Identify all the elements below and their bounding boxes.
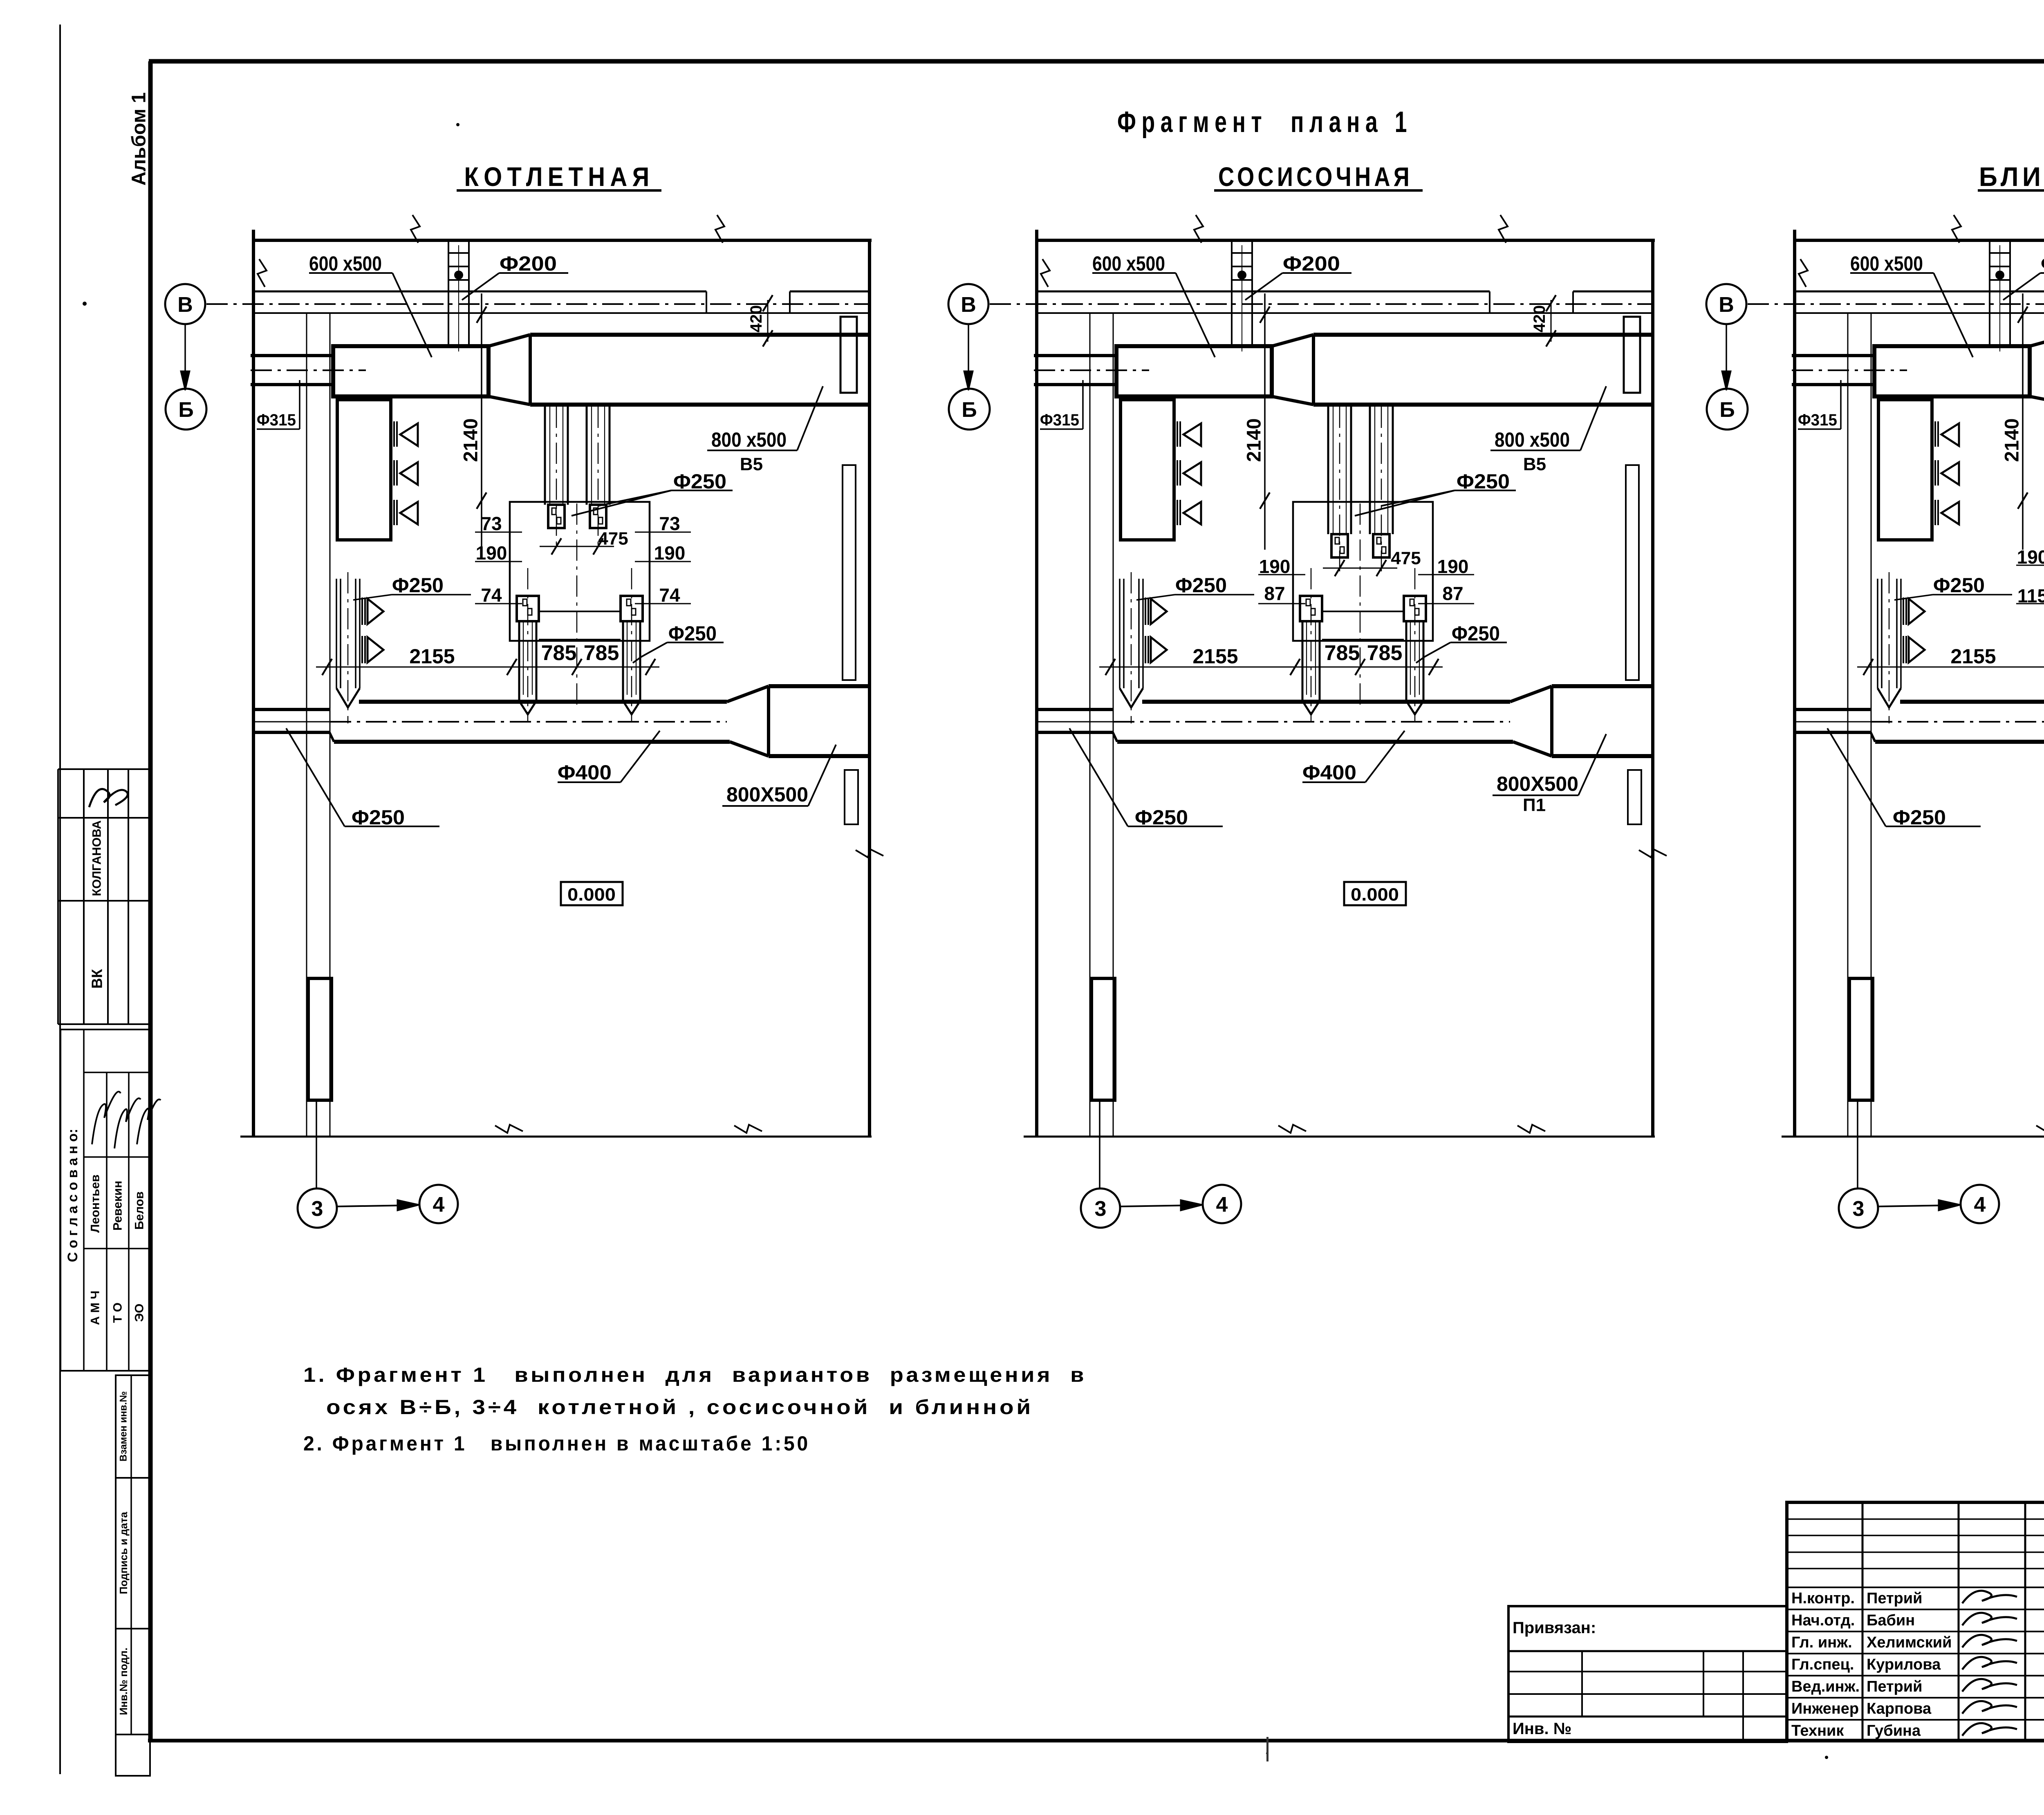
svg-text:Карпова: Карпова [1867, 1700, 1932, 1717]
break mark top wall [1194, 215, 1203, 243]
svg-text:Φ250: Φ250 [1452, 622, 1500, 645]
wall inner face line [253, 312, 870, 314]
svg-text:А М Ч: А М Ч [89, 1291, 102, 1325]
axis circle B [1706, 284, 1746, 324]
svg-text:785: 785 [1367, 641, 1403, 665]
svg-text:Φ200: Φ200 [2041, 252, 2044, 275]
break mark bottom wall 2 [734, 1125, 762, 1133]
wall inner face line [1037, 312, 1653, 314]
duct 600x500 rect [1116, 346, 1272, 396]
break mark bottom wall [495, 1125, 523, 1133]
svg-text:П1: П1 [1523, 795, 1546, 815]
svg-text:Т О: Т О [111, 1303, 125, 1323]
wall right [868, 240, 871, 1137]
600x400 triangle 1 [1183, 423, 1201, 446]
equipment outline [510, 502, 650, 641]
svg-text:Φ315: Φ315 [257, 411, 296, 429]
right wall T-pier [840, 317, 857, 393]
600x400 triangle 3 [1183, 502, 1201, 524]
pier on axis 3 [1849, 978, 1873, 1100]
axis duct F315 dash-dot [1034, 369, 1149, 371]
600x400 triangle 2 [1183, 462, 1201, 485]
break mark top wall [1952, 215, 1961, 243]
svg-text:190: 190 [1437, 556, 1469, 577]
break mark bottom wall [2036, 1125, 2044, 1133]
wall top inner line [1795, 291, 2044, 293]
drawing frame [148, 61, 153, 1741]
left riser triangle bottom [368, 637, 383, 662]
wall bottom [1024, 1136, 1655, 1138]
svg-text:74: 74 [481, 584, 502, 606]
svg-text:Губина: Губина [1867, 1722, 1921, 1739]
svg-text:Инв.№ подл.: Инв.№ подл. [117, 1647, 130, 1715]
svg-text:Б: Б [178, 398, 193, 422]
left riser grille bars [361, 598, 363, 625]
left riser triangle top [368, 599, 383, 624]
soglasovano stamp box [61, 1029, 150, 1371]
dim 475 line [1323, 568, 1397, 569]
wall right [1651, 240, 1654, 1137]
duct F400 main bottom [1875, 740, 2044, 744]
axis arrow B to B [184, 324, 186, 383]
wall left [1035, 230, 1038, 1137]
riser F200 through wall [1989, 240, 1990, 346]
svg-text:785: 785 [1325, 641, 1360, 665]
duct F400 main bottom [334, 740, 730, 744]
svg-text:0.000: 0.000 [1351, 885, 1399, 905]
svg-text:2140: 2140 [460, 419, 482, 462]
duct F400 left stub [253, 708, 329, 711]
box 600x400 [1121, 400, 1174, 540]
svg-text:Петрий: Петрий [1867, 1590, 1923, 1607]
partition lines x750 x807 [1089, 313, 1091, 1137]
duct F400 axis [1795, 721, 1871, 723]
svg-text:Φ250: Φ250 [673, 470, 726, 493]
right wall pilaster lower [845, 770, 858, 824]
margin box small [116, 1734, 150, 1776]
svg-text:БЛИННАЯ: БЛИННАЯ [1979, 161, 2044, 192]
paper edge line left [59, 25, 61, 1774]
svg-text:Ревекин: Ревекин [111, 1181, 125, 1231]
wall inner face line [1795, 312, 2044, 314]
titleblock name rows [1787, 1609, 2044, 1610]
wall top outer [1795, 239, 2044, 242]
svg-text:ЭО: ЭО [133, 1304, 146, 1322]
duct F315 band [1034, 354, 1116, 357]
svg-text:Φ250: Φ250 [1457, 470, 1510, 493]
transition 600x500 to 800x500 [1272, 335, 1313, 346]
svg-text:0.000: 0.000 [567, 885, 616, 905]
duct 800x500 B5 bottom [1313, 403, 1653, 407]
duct 600x500 rect [333, 346, 489, 396]
partition lines x750 x807 [1847, 313, 1849, 1137]
600x400 triangle 3 [400, 502, 418, 524]
riser F250 left [336, 579, 337, 688]
margin box Inv N podl [116, 1629, 150, 1734]
axis arrow 3 to 4 [337, 1205, 412, 1206]
svg-text:Φ250: Φ250 [1135, 806, 1188, 829]
svg-text:Б: Б [1719, 398, 1735, 422]
left riser triangle top [1151, 599, 1167, 624]
duct F315 band [251, 354, 332, 357]
svg-text:В5: В5 [740, 454, 763, 474]
duct F400 axis [253, 721, 330, 723]
transition F400 to 800x500 [1510, 686, 1552, 702]
svg-text:Φ250: Φ250 [1175, 574, 1227, 597]
hood connector lines [539, 611, 621, 612]
svg-text:Техник: Техник [1791, 1722, 1844, 1739]
svg-text:Петрий: Петрий [1867, 1678, 1923, 1695]
svg-text:осях В÷Б, 3÷4 котлетной , сос: осях В÷Б, 3÷4 котлетной , сосисочной и б… [326, 1396, 1033, 1419]
svg-text:420: 420 [747, 305, 765, 333]
svg-text:Подпись и дата: Подпись и дата [117, 1512, 130, 1594]
svg-text:475: 475 [1391, 548, 1421, 568]
break mark left wall top [1799, 259, 1808, 287]
titleblock signatures [1962, 1591, 2017, 1603]
axis arrow B to B [968, 324, 969, 383]
svg-text:87: 87 [1442, 583, 1463, 604]
svg-text:74: 74 [659, 584, 680, 606]
riser F250 left [1119, 579, 1121, 688]
600x400 triangle 2 [1941, 462, 1959, 485]
svg-text:115: 115 [2017, 585, 2044, 606]
break mark top wall [411, 215, 420, 243]
break mark top wall right [1499, 215, 1508, 243]
plan СОСИСОЧНАЯ room walls [1024, 215, 1667, 1137]
upper risers F250 pair [544, 405, 546, 505]
transition F400 to 800x500 [727, 686, 769, 702]
dust specks [83, 302, 87, 306]
transition 600x500 to 800x500 [2030, 335, 2044, 346]
svg-text:87: 87 [1264, 583, 1285, 604]
label F250 to right riser leader [633, 642, 667, 663]
axis circle B [165, 284, 205, 324]
dim 2140 vertical [2022, 293, 2024, 550]
svg-text:3: 3 [1853, 1197, 1865, 1221]
lower risers F250 pair [517, 596, 539, 621]
svg-text:С о г л а с о в а н о:: С о г л а с о в а н о: [65, 1129, 81, 1262]
600x400 grille bars [393, 421, 395, 447]
duct F400 left stub [1795, 708, 1871, 711]
axis circle 3 [316, 1100, 317, 1188]
level mark 0.000 [561, 882, 623, 905]
svg-text:Φ200: Φ200 [500, 252, 557, 275]
600x400 grille bars [1934, 421, 1936, 447]
privyazan block [1508, 1606, 1787, 1742]
svg-text:Хелимский: Хелимский [1867, 1634, 1952, 1651]
svg-text:Взамен инв.№: Взамен инв.№ [118, 1391, 129, 1461]
svg-text:Леонтьев: Леонтьев [89, 1175, 102, 1233]
svg-text:Φ250: Φ250 [392, 574, 444, 597]
svg-text:Альбом 1: Альбом 1 [128, 92, 150, 186]
axis circle 4 [1203, 1185, 1241, 1223]
wall top inner line [1037, 291, 1490, 293]
svg-text:ВК: ВК [89, 969, 105, 989]
svg-text:Н.контр.: Н.контр. [1791, 1590, 1855, 1607]
right wall T-pier [1624, 317, 1640, 393]
level mark 0.000 [1344, 882, 1406, 905]
svg-text:4: 4 [1974, 1193, 1986, 1217]
break mark left wall top [1041, 259, 1050, 287]
svg-text:Φ250: Φ250 [668, 622, 717, 645]
svg-text:Φ250: Φ250 [352, 806, 405, 829]
svg-text:В: В [177, 293, 193, 317]
stamp signatures [92, 1092, 121, 1144]
left riser triangle bottom [1151, 637, 1167, 662]
svg-text:В5: В5 [1523, 454, 1546, 474]
axis B dash-dot line [206, 303, 870, 305]
svg-text:В: В [961, 293, 976, 317]
svg-text:Гл. инж.: Гл. инж. [1791, 1634, 1852, 1651]
dim 2155 785 785 line [1099, 667, 1443, 668]
600x400 triangle 1 [1941, 423, 1959, 446]
break mark left wall top [258, 259, 267, 287]
left riser grille bars [1145, 598, 1146, 625]
svg-text:Бабин: Бабин [1867, 1612, 1915, 1629]
svg-text:785: 785 [541, 641, 577, 665]
600x400 grille bars [1177, 421, 1178, 447]
axis circle Б [1707, 389, 1748, 430]
svg-text:190: 190 [2017, 546, 2044, 568]
axis circle Б [949, 389, 990, 430]
wall left [1793, 230, 1796, 1137]
left riser grille bars [1903, 598, 1904, 625]
riser F200 through wall [448, 240, 449, 346]
margin box Vzamen inv [116, 1375, 150, 1478]
svg-text:Φ400: Φ400 [1302, 761, 1356, 784]
titleblock name table columns [1862, 1502, 1864, 1741]
pier on axis 3 [1091, 978, 1115, 1100]
600x400 triangle 3 [1941, 502, 1959, 524]
svg-text:800 x500: 800 x500 [1495, 428, 1570, 451]
600x400 triangle 2 [400, 462, 418, 485]
svg-text:190: 190 [1259, 556, 1291, 577]
svg-text:73: 73 [481, 513, 502, 534]
svg-text:73: 73 [659, 513, 680, 534]
center axis of grilles [576, 504, 578, 705]
svg-text:Инженер: Инженер [1791, 1700, 1859, 1717]
svg-text:КОТЛЕТНАЯ: КОТЛЕТНАЯ [464, 161, 654, 192]
equipment outline [1293, 502, 1433, 641]
sidebar signature [89, 789, 128, 807]
svg-text:4: 4 [433, 1193, 445, 1217]
break mark right wall [856, 849, 883, 857]
axis circle 3 [1099, 1100, 1100, 1188]
svg-text:Φ200: Φ200 [1283, 252, 1340, 275]
left riser triangle bottom [1909, 637, 1925, 662]
duct 600x500 rect [1874, 346, 2030, 396]
riser F250 left [1877, 579, 1878, 688]
wall slot verticals [706, 291, 707, 313]
duct 800x500 B5 bottom [530, 403, 870, 407]
wall left [252, 230, 255, 1137]
svg-text:3: 3 [312, 1197, 323, 1221]
svg-text:Φ250: Φ250 [1933, 574, 1985, 597]
axis arrow 3 to 4 [1878, 1205, 1953, 1206]
wall top inner line [253, 291, 706, 293]
partition lines x750 x807 [306, 313, 307, 1137]
axis arrow B to B [1726, 324, 1727, 383]
axis circle Б [166, 389, 206, 430]
svg-text:800X500: 800X500 [1497, 772, 1578, 795]
svg-text:Φ315: Φ315 [1798, 411, 1837, 429]
svg-text:3: 3 [1095, 1197, 1107, 1221]
duct F400 axis [1037, 721, 1113, 723]
transition 600x500 to 800x500 [489, 335, 530, 346]
dim 475 line [540, 546, 614, 547]
pier on axis 3 [308, 978, 332, 1100]
left riser triangle top [1909, 599, 1925, 624]
margin box Podpis i data [116, 1478, 150, 1629]
svg-text:1. Фрагмент 1 выполнен для: 1. Фрагмент 1 выполнен для вариантов раз… [303, 1363, 1087, 1386]
dim 2140 vertical [1264, 293, 1266, 550]
dim 420 vertical [1551, 300, 1552, 342]
duct F400 main top [1900, 700, 2044, 704]
svg-text:420: 420 [1531, 305, 1549, 333]
break mark bottom wall [1278, 1125, 1306, 1133]
svg-text:2. Фрагмент 1 выполнен в мас: 2. Фрагмент 1 выполнен в масштабе 1:50 [303, 1432, 810, 1455]
svg-text:Б: Б [961, 398, 977, 422]
svg-text:Инв. №: Инв. № [1513, 1720, 1571, 1738]
box 600x400 [1878, 400, 1932, 540]
sidebar table VK Kolganova [58, 768, 150, 770]
svg-text:Фрагмент плана 1: Фрагмент плана 1 [1117, 106, 1412, 139]
svg-text:4: 4 [1216, 1193, 1228, 1217]
lower risers F250 pair [1300, 596, 1322, 621]
svg-text:190: 190 [654, 542, 686, 564]
hood connector lines [1322, 611, 1404, 612]
wall bottom [240, 1136, 872, 1138]
titleblock thin top rows [1787, 1518, 2044, 1520]
svg-text:2155: 2155 [409, 645, 455, 668]
wall top outer [1037, 239, 1655, 242]
right wall pilaster lower [1628, 770, 1641, 824]
break mark right wall [1639, 849, 1667, 857]
axis B dash-dot line [990, 303, 1653, 305]
titleblock outer [1787, 1502, 2044, 1741]
svg-text:2140: 2140 [2001, 419, 2023, 462]
axis arrow 3 to 4 [1120, 1205, 1195, 1206]
svg-text:800 x500: 800 x500 [711, 428, 787, 451]
axis circle 3 [1857, 1100, 1858, 1188]
svg-text:785: 785 [584, 641, 619, 665]
axis duct F315 dash-dot [1792, 369, 1907, 371]
svg-text:КОЛГАНОВА: КОЛГАНОВА [90, 820, 104, 896]
svg-text:СОСИСОЧНАЯ: СОСИСОЧНАЯ [1218, 161, 1413, 192]
break mark top wall right [715, 215, 724, 243]
box 600x400 [337, 400, 391, 540]
svg-text:Белов: Белов [133, 1191, 146, 1230]
duct F400 left stub [1037, 708, 1113, 711]
axis circle B [948, 284, 988, 324]
duct F400 main top [359, 700, 727, 704]
axis circle 4 [1961, 1185, 1999, 1223]
center axis of grilles [1360, 504, 1361, 705]
wall slot verticals [1489, 291, 1490, 313]
duct 800x500 B5 top [1313, 333, 1653, 337]
600x400 triangle 1 [400, 423, 418, 446]
duct F400 main bottom [1117, 740, 1513, 744]
duct 800x500 P1 band [769, 684, 870, 688]
svg-text:Гл.спец.: Гл.спец. [1791, 1656, 1854, 1673]
svg-text:2155: 2155 [1192, 645, 1238, 668]
svg-text:Φ315: Φ315 [1040, 411, 1079, 429]
svg-text:Φ400: Φ400 [558, 761, 612, 784]
duct 800x500 P1 band [1552, 684, 1653, 688]
axis circle 4 [419, 1185, 458, 1223]
svg-text:Привязан:: Привязан: [1513, 1619, 1596, 1637]
riser F200 through wall [1231, 240, 1233, 346]
dim 420 vertical [767, 300, 769, 342]
svg-text:2140: 2140 [1244, 419, 1265, 462]
svg-text:В: В [1719, 293, 1734, 317]
svg-text:2155: 2155 [1950, 645, 1996, 668]
dim 2155 785 785 line [1857, 667, 2044, 668]
break mark bottom wall 2 [1517, 1125, 1545, 1133]
axis duct F315 dash-dot [251, 369, 366, 371]
wall top outer [253, 239, 872, 242]
dim rows [475, 532, 522, 533]
dim 2140 vertical [481, 293, 482, 550]
svg-text:800X500: 800X500 [726, 783, 808, 806]
svg-text:Вед.инж.: Вед.инж. [1791, 1678, 1860, 1695]
wall bottom [1782, 1136, 2044, 1138]
duct 800x500 B5 top [530, 333, 870, 337]
right wall pilaster upper [1626, 465, 1639, 680]
duct F315 band [1792, 354, 1874, 357]
axis B dash-dot line [1748, 303, 2044, 305]
svg-text:Φ250: Φ250 [1893, 806, 1946, 829]
svg-text:Курилова: Курилова [1867, 1656, 1941, 1673]
plan БЛИННАЯ room walls [1782, 215, 2044, 1137]
plan КОТЛЕТНАЯ room walls [240, 215, 883, 1137]
duct F400 main top [1142, 700, 1510, 704]
svg-text:Нач.отд.: Нач.отд. [1791, 1612, 1855, 1629]
svg-text:600 x500: 600 x500 [309, 252, 382, 275]
right wall pilaster upper [843, 465, 856, 680]
svg-text:600 x500: 600 x500 [1092, 252, 1165, 275]
upper risers F250 pair [1327, 405, 1329, 534]
dim 2155 785 785 line [316, 667, 659, 668]
svg-text:475: 475 [598, 529, 628, 549]
label F250 to right riser leader [1416, 642, 1450, 663]
svg-text:190: 190 [476, 542, 507, 564]
svg-text:600 x500: 600 x500 [1850, 252, 1923, 275]
dim rows [1258, 574, 1305, 575]
